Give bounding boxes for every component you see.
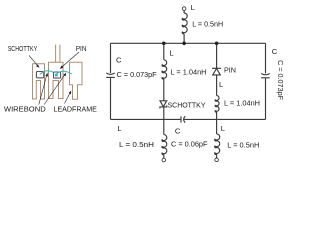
svg-text:L: L bbox=[117, 124, 121, 133]
capacitor C 0.073pF right: straight bottom plate bbox=[261, 77, 270, 79]
pin chip inner cyan square bbox=[55, 74, 58, 77]
leadframe pad right bbox=[70, 62, 83, 99]
schottky chip bbox=[36, 72, 43, 78]
wire bottom rail left of series cap bbox=[111, 118, 182, 120]
svg-text:LEADFRAME: LEADFRAME bbox=[54, 105, 97, 114]
wire branch A top (schottky branch) bbox=[163, 43, 165, 60]
pin chip bbox=[54, 72, 61, 78]
svg-text:L = 0.5nH: L = 0.5nH bbox=[227, 141, 259, 150]
svg-text:L = 1.04nH: L = 1.04nH bbox=[224, 99, 260, 108]
leadframe pad left (schottky die pad) bbox=[33, 64, 45, 99]
arrow pin label to chip bbox=[62, 52, 79, 67]
wire left edge upper bbox=[110, 43, 112, 73]
svg-text:PIN: PIN bbox=[224, 66, 236, 75]
wire branch A below rail bbox=[163, 119, 165, 134]
svg-text:L: L bbox=[169, 49, 173, 58]
diode D2 PIN: bar bbox=[212, 67, 221, 69]
svg-text:L: L bbox=[191, 3, 195, 12]
wirebond 1 (schottky to pin chip) bbox=[40, 71, 53, 75]
svg-text:L = 1.04nH: L = 1.04nH bbox=[171, 68, 207, 77]
svg-text:C = 0.073pF: C = 0.073pF bbox=[276, 60, 284, 101]
node junction dot A bbox=[162, 42, 166, 46]
wire to bottom-right terminal bbox=[216, 154, 218, 158]
diode D1 SCHOTTKY: triangle bbox=[160, 101, 167, 107]
leadframe pad middle (pin die pad with up lead) bbox=[49, 45, 64, 99]
arrow leadframe bbox=[65, 93, 70, 103]
svg-text:SCHOTTKY: SCHOTTKY bbox=[8, 44, 38, 53]
wire right edge lower bbox=[265, 78, 267, 119]
terminal bottom-left bbox=[162, 158, 166, 162]
capacitor C 0.06pF series: curved right plate bbox=[184, 116, 186, 123]
svg-text:L: L bbox=[219, 80, 223, 89]
svg-text:C: C bbox=[116, 56, 122, 65]
svg-text:C = 0.073pF: C = 0.073pF bbox=[117, 70, 158, 79]
svg-text:PIN: PIN bbox=[76, 44, 87, 53]
svg-text:C = 0.06pF: C = 0.06pF bbox=[171, 140, 208, 149]
wire branch B top (pin branch) bbox=[216, 43, 218, 68]
inductor L 0.5nH bottom-left coil bbox=[162, 135, 167, 155]
svg-text:L = 0.5nH: L = 0.5nH bbox=[192, 19, 223, 28]
node junction dot T bbox=[182, 42, 186, 46]
arrow schottky label to chip bbox=[29, 52, 79, 105]
wire branch T (top terminal branch) bbox=[183, 11, 185, 14]
diode D1 SCHOTTKY: bar with hooks bbox=[160, 105, 167, 108]
wire branch A lower bbox=[163, 107, 165, 120]
wire branch A middle bbox=[163, 79, 165, 101]
capacitor C 0.073pF right: curved top plate bbox=[261, 73, 269, 75]
svg-text:WIREBOND: WIREBOND bbox=[4, 105, 46, 114]
inductor L 0.5nH bottom-right coil bbox=[215, 134, 220, 155]
wire right edge upper bbox=[265, 43, 267, 73]
inductor L 1.04nH branch B coil bbox=[215, 96, 219, 112]
wire branch B middle bbox=[216, 75, 218, 96]
terminal bottom-right bbox=[215, 158, 219, 162]
wire top rail bbox=[111, 42, 266, 44]
wire branch B lower bbox=[216, 112, 218, 120]
svg-text:C: C bbox=[272, 47, 278, 56]
capacitor C 0.073pF left: curved top plate bbox=[106, 73, 114, 75]
capacitor C 0.073pF left: straight bottom plate bbox=[106, 76, 115, 78]
wire bottom rail right of series cap bbox=[184, 118, 266, 120]
svg-text:SCHOTTKY: SCHOTTKY bbox=[168, 100, 206, 109]
wire branch T lower bbox=[183, 34, 185, 43]
arrow wirebond 2 bbox=[44, 75, 64, 104]
diode D2 PIN: triangle apex up bbox=[213, 69, 221, 75]
capacitor C 0.06pF series: straight left plate bbox=[180, 116, 182, 122]
node junction dot B bbox=[215, 42, 219, 46]
svg-text:L = 0.5nH: L = 0.5nH bbox=[119, 140, 154, 149]
inductor L 0.5nH top coil bbox=[182, 13, 187, 34]
wire to bottom-left terminal bbox=[163, 155, 165, 159]
wire left edge lower bbox=[110, 78, 112, 120]
wire branch B below rail bbox=[216, 119, 218, 133]
wirebond 2 (pin chip to right pad) bbox=[56, 71, 71, 74]
up lead right side bbox=[59, 45, 61, 63]
arrow wirebond 1 bbox=[39, 76, 47, 105]
svg-text:C: C bbox=[175, 126, 181, 135]
terminal top bbox=[182, 7, 186, 11]
svg-text:L: L bbox=[221, 124, 225, 133]
inductor L 1.04nH branch A coil bbox=[162, 60, 167, 79]
